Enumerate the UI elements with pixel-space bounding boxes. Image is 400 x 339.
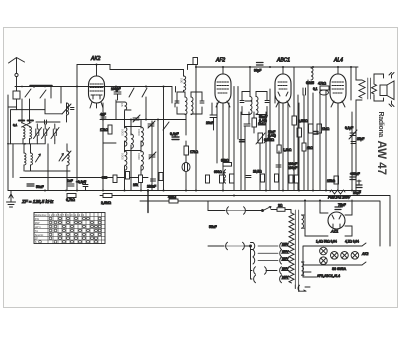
rectifier AZ1 [328, 212, 345, 229]
wire top-left bus y86 [15, 86, 172, 88]
cap pair near osc coil [71, 108, 75, 110]
wire horizontal y144 [8, 107, 45, 144]
wires left verticals [8, 65, 77, 191]
power area: selector row [208, 201, 291, 214]
wires mid2 [212, 67, 299, 191]
AZ1 loop wires [305, 200, 352, 236]
decoupling caps row [102, 176, 251, 182]
cap 0,1uF [172, 137, 179, 140]
IF transformer 2 [240, 92, 269, 115]
svg-text:0,1: 0,1 [313, 87, 318, 91]
trimmer cap T3 [149, 152, 156, 159]
trimmer cap T2 [148, 121, 155, 128]
antenna input box AE [13, 91, 20, 107]
svg-text:TA: TA [35, 229, 38, 233]
svg-text:ZF = 128,5 kHz: ZF = 128,5 kHz [21, 199, 54, 204]
svg-text:10k: 10k [133, 183, 139, 187]
coil value marks [120, 103, 141, 160]
svg-text:0,025: 0,025 [306, 81, 314, 85]
transformer bottom hooks [295, 285, 298, 292]
svg-text:2,6MΩ: 2,6MΩ [101, 201, 112, 205]
svg-text:Wellenber.: Wellenber. [35, 213, 47, 217]
svg-text:100V: 100V [282, 267, 289, 271]
cap 100pF det [276, 165, 281, 167]
svg-text:S3 60/6A: S3 60/6A [332, 267, 347, 271]
svg-text:AK2: AK2 [90, 56, 101, 62]
svg-text:0,3MΩ: 0,3MΩ [298, 119, 308, 123]
trimmer cap T1 [133, 115, 140, 122]
svg-text:1MΩ: 1MΩ [258, 122, 266, 126]
lamp L1 [320, 247, 328, 255]
svg-text:AL4: AL4 [333, 58, 343, 64]
svg-text:220V: 220V [282, 257, 289, 261]
cap 1nF [68, 184, 74, 186]
resistor 15k [334, 176, 339, 184]
electrolytic can [182, 163, 190, 172]
svg-text:ABC1: ABC1 [276, 58, 290, 64]
resistor 2,6M inline [103, 194, 112, 198]
svg-text:AF2: AF2 [215, 58, 225, 64]
svg-text:1kΩ: 1kΩ [307, 146, 313, 150]
mid verticals [103, 87, 172, 191]
tube AF2 [215, 67, 231, 108]
svg-text:1,3kΩ: 1,3kΩ [283, 148, 292, 152]
svg-text:030: 030 [180, 78, 184, 83]
svg-text:08: 08 [120, 103, 124, 107]
switch S3 [163, 122, 169, 130]
svg-text:KW: KW [35, 217, 40, 221]
resistor 32k horizontal [223, 163, 232, 167]
heater tap hooks [251, 243, 290, 265]
TA jacks [223, 170, 226, 184]
right verticals [298, 80, 352, 191]
svg-text:+0,1μF: +0,1μF [76, 180, 86, 184]
svg-text:42kΩ: 42kΩ [168, 195, 176, 199]
svg-text:30pF: 30pF [254, 69, 261, 73]
gang variable capacitor C2 [42, 124, 50, 140]
svg-text:20nF: 20nF [206, 121, 214, 125]
cap 50nF [27, 184, 34, 186]
cap +0,1uF [83, 181, 88, 191]
gang variable capacitor C1 [34, 124, 42, 140]
lamp L2 [320, 257, 328, 265]
field coil resistor [330, 190, 345, 194]
svg-text:15kΩ: 15kΩ [327, 179, 335, 183]
table circles [39, 217, 101, 243]
switch S1a [25, 89, 31, 97]
svg-text:Radiona: Radiona [377, 112, 384, 138]
svg-text:3,1: 3,1 [13, 123, 18, 127]
osc coil assembly [125, 102, 144, 170]
switch coil2 [36, 154, 41, 162]
svg-text:0,1μF: 0,1μF [170, 132, 179, 136]
svg-text:+60μF: +60μF [350, 172, 360, 176]
switch S2a [129, 88, 134, 97]
svg-text:100pF: 100pF [288, 166, 297, 170]
osc coil right lower [67, 151, 69, 165]
switch S2b [142, 88, 147, 97]
svg-text:25μF: 25μF [357, 137, 364, 141]
lamp L4 [341, 252, 349, 260]
svg-text:18,5Ω: 18,5Ω [253, 170, 262, 174]
wire bus to IFT2 [249, 67, 251, 92]
trimmer bars RF coils [19, 120, 33, 122]
svg-text:47kΩ: 47kΩ [318, 82, 326, 86]
band switch table [34, 213, 105, 244]
electrolytic 75uF [335, 207, 341, 210]
bottom bus A [8, 190, 361, 192]
table header marks [49, 213, 85, 217]
RF coil pair 2 [24, 153, 33, 165]
svg-text:600Ω: 600Ω [214, 170, 222, 174]
osc coil right upper [67, 103, 69, 115]
svg-text:Feld 2+2 250V: Feld 2+2 250V [328, 196, 351, 200]
svg-text:150V: 150V [282, 249, 289, 253]
svg-text:125V: 125V [282, 242, 289, 246]
svg-text:1MΩ: 1MΩ [322, 127, 330, 131]
tube AK2 [89, 65, 105, 109]
junction dots left [7, 85, 67, 191]
cap 30pF [257, 63, 264, 66]
resistor 6,7k [67, 194, 76, 198]
svg-text:0000: 0000 [121, 153, 125, 160]
gang variable capacitor C3 [51, 124, 59, 140]
resistor 17k vertical [108, 125, 112, 134]
capacitor 100pF [114, 87, 121, 101]
resistors under ABC1 [292, 116, 297, 125]
svg-text:ZF: ZF [35, 236, 39, 240]
wires mid [176, 67, 197, 191]
ground [7, 191, 16, 208]
coil 000 at 310 [311, 68, 313, 80]
plate load coil 030 [184, 76, 186, 92]
jacks row 2 [208, 242, 252, 279]
AL4 stage caps [303, 88, 306, 95]
svg-text:55nF: 55nF [209, 225, 217, 229]
lamp L5 [351, 252, 359, 260]
link wire over caps [36, 120, 60, 124]
coupling coil [320, 90, 329, 95]
svg-text:AZ1: AZ1 [330, 229, 338, 234]
svg-text:MW: MW [35, 221, 40, 225]
trimmer cluster right [349, 130, 357, 144]
svg-text:Sperrkr.: Sperrkr. [35, 233, 44, 237]
svg-text:0000: 0000 [137, 129, 141, 136]
bottom bus C [140, 201, 380, 246]
svg-text:AF2,ABC1,AL4: AF2,ABC1,AL4 [317, 274, 340, 278]
svg-text:1nF: 1nF [67, 179, 73, 183]
svg-text:75μF: 75μF [338, 203, 346, 207]
antenna [9, 58, 25, 92]
svg-text:50nF: 50nF [36, 185, 44, 189]
electrolytic 20uF [356, 180, 362, 188]
svg-text:(LA1): (LA1) [259, 119, 267, 123]
svg-text:4,7Ω 0,04: 4,7Ω 0,04 [345, 240, 359, 244]
resistors right [309, 124, 314, 133]
wires mid2 extra [217, 87, 288, 191]
fuse box on top bus [193, 58, 198, 65]
svg-text:182nF: 182nF [147, 185, 156, 189]
svg-text:17kΩ: 17kΩ [100, 128, 108, 132]
shield box inner stems [17, 107, 30, 144]
tube ABC1 [275, 67, 291, 108]
shield wire with jog [11, 110, 63, 144]
crossing wires X [22, 123, 32, 128]
svg-text:LW 1: LW 1 [35, 225, 41, 229]
svg-text:20μF: 20μF [353, 191, 361, 195]
resistor 1k AL4 cathode [302, 143, 306, 151]
resistor 1M [252, 118, 257, 127]
table row labels [35, 213, 47, 244]
svg-text:0060: 0060 [137, 153, 141, 160]
lamps bus [303, 246, 362, 265]
top bus [77, 65, 358, 77]
svg-text:240V: 240V [282, 275, 289, 279]
short connectors osc [103, 102, 141, 151]
resistor 47k [320, 86, 329, 90]
svg-text:1,4Ω 50Ω 0,04: 1,4Ω 50Ω 0,04 [316, 240, 337, 244]
switch at pot [264, 135, 270, 143]
osc coil slash [62, 104, 71, 161]
upper bottom bus [20, 177, 148, 179]
cap 5nF detector [244, 124, 250, 126]
svg-text:AW 47: AW 47 [375, 141, 387, 176]
resistor 42k inline [169, 199, 178, 203]
lamp L3 [331, 252, 339, 260]
svg-text:0000: 0000 [121, 129, 125, 136]
AVC line [100, 119, 186, 121]
cap 20nF [210, 115, 217, 118]
electrolytic 60uF [350, 177, 356, 180]
volume pot 0,5M [256, 133, 265, 144]
wires right top [351, 67, 384, 191]
decoupling resistor row [113, 172, 299, 184]
svg-text:32kΩ: 32kΩ [221, 159, 229, 163]
jacks row 3 [251, 267, 290, 283]
heavy stub wire [147, 191, 149, 213]
electro blob AL4 [314, 132, 319, 135]
svg-text:17kΩ: 17kΩ [190, 150, 198, 154]
speaker [380, 73, 394, 107]
cap 0,1uF detector blob [240, 140, 245, 142]
switch S1b [40, 90, 46, 98]
tube AL4 [330, 67, 346, 108]
RF coil pair 1 [23, 127, 32, 139]
svg-text:2Ω: 2Ω [278, 204, 283, 208]
heavy bus segment [30, 85, 52, 87]
svg-text:0,1μF: 0,1μF [345, 126, 353, 130]
svg-text:1 2 3 4 5 6 7 8 9 10 11 12 13: 1 2 3 4 5 6 7 8 9 10 11 12 13 [49, 213, 85, 217]
resistor 1,3k vertical [277, 145, 281, 153]
IF transformer 1 [175, 92, 204, 115]
output transformer [359, 78, 377, 99]
svg-text:6,7kΩ: 6,7kΩ [66, 198, 75, 202]
switch near lower coil [59, 154, 64, 162]
resistor 17k [184, 146, 189, 155]
cap 4nF [101, 117, 106, 119]
heater wires [303, 265, 316, 277]
power transformer [289, 210, 304, 285]
svg-text:AK2: AK2 [361, 252, 369, 256]
svg-text:S: S [35, 240, 37, 244]
wire stub x51 [50, 87, 52, 99]
bottom bus B [100, 196, 390, 247]
